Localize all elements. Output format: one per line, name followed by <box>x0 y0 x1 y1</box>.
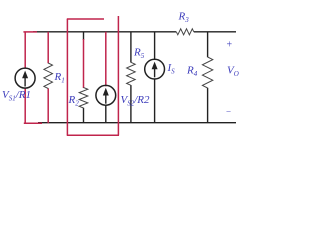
current source IS circle <box>145 59 165 79</box>
wire R1 column top <box>47 32 49 64</box>
svg-text:−: − <box>226 107 231 117</box>
wire R5 column bottom <box>130 85 132 123</box>
current source VS1/R1 circle <box>15 68 35 88</box>
wire IS column top <box>154 32 156 60</box>
resistor R1 <box>44 63 53 89</box>
wire source2 bottom stub <box>105 105 107 122</box>
svg-text:+: + <box>227 40 233 51</box>
resistor R5 <box>127 62 136 85</box>
wire R2 bottom stub <box>83 108 85 123</box>
wire bottom rail (ground node) <box>38 122 236 124</box>
wire source1 column bottom <box>24 88 26 123</box>
resistor R3 <box>176 29 194 35</box>
svg-text:IS: IS <box>167 62 176 75</box>
wire R4 column bottom <box>207 88 209 123</box>
wire bottom-left red segment <box>24 122 42 124</box>
wire R2 top stub <box>83 32 85 40</box>
svg-text:VS2/R2: VS2/R2 <box>121 94 151 107</box>
current source VS2/R2 arrow <box>105 94 107 104</box>
wire R4 column top <box>207 32 209 57</box>
svg-text:R4: R4 <box>186 65 198 78</box>
highlight box bottom edge <box>67 134 119 136</box>
svg-text:VS1/R1: VS1/R1 <box>2 89 31 102</box>
wire source2 column red <box>105 32 107 87</box>
current source VS2/R2 circle <box>96 85 116 105</box>
wire top rail right (R3 to output +) <box>194 31 236 33</box>
highlight box left edge <box>66 19 68 135</box>
svg-text:VO: VO <box>227 65 239 78</box>
svg-text:R5: R5 <box>133 47 145 60</box>
resistor R4 <box>202 57 212 88</box>
wire source1 column top <box>24 32 26 68</box>
resistor R2 <box>79 88 88 109</box>
wire R1 column bottom <box>47 88 49 123</box>
highlight box top edge <box>67 18 104 20</box>
svg-text:R1: R1 <box>54 71 65 84</box>
wire top-left red segment <box>23 31 37 33</box>
current source IS arrow <box>154 67 156 77</box>
svg-text:R2: R2 <box>68 94 80 107</box>
highlight box right edge <box>117 16 119 135</box>
wire IS column bottom <box>154 79 156 123</box>
wire R5 column top <box>130 32 132 63</box>
wire R2 column red <box>83 39 85 88</box>
svg-text:R3: R3 <box>178 11 190 24</box>
current source VS1/R1 arrow <box>24 77 26 87</box>
wire top rail left (node A to R3) <box>33 31 176 33</box>
